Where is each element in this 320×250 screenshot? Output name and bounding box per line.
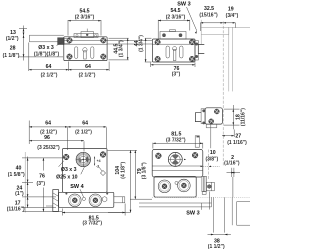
view C lower bracket [206, 124, 217, 128]
svg-text:(2 1/2"): (2 1/2") [79, 73, 96, 79]
view A corner screws [66, 37, 73, 44]
view E bolt and hex [202, 176, 214, 194]
svg-text:(1 3/4"): (1 3/4") [138, 35, 144, 52]
svg-text:(1 5/8"): (1 5/8") [8, 172, 25, 178]
wall section vertical lines right [229, 27, 233, 91]
view D rollers [69, 194, 82, 207]
svg-text:Ø3 x 3: Ø3 x 3 [38, 45, 54, 51]
view E adjust wheel [168, 152, 186, 166]
svg-text:64: 64 [82, 120, 88, 126]
tolerance +4 / -2 [94, 157, 102, 172]
label SW 3 top with leader [177, 2, 197, 34]
svg-text:+4: +4 [97, 159, 101, 163]
dim 76 vertical [22, 158, 62, 212]
svg-text:(2 3/16"): (2 3/16") [166, 15, 186, 21]
svg-text:(3"): (3") [172, 71, 181, 77]
svg-text:Ø3 x 3: Ø3 x 3 [61, 167, 77, 173]
dim 13 / 28 far left [3, 26, 63, 61]
dim 81.5 above view E [153, 132, 203, 149]
svg-text:(1/2"): (1/2") [6, 36, 19, 42]
view B slots [166, 46, 183, 61]
dim 10 right of view E [201, 150, 220, 167]
dim 54.5 top-left [68, 9, 101, 36]
view D top screws [62, 153, 70, 161]
svg-text:(1/8")(1/8"): (1/8")(1/8") [34, 52, 60, 58]
view D hex nut and axle [102, 197, 125, 203]
svg-text:76: 76 [39, 173, 45, 179]
wire top rail right segment to view B [107, 40, 152, 44]
view E screws [155, 152, 163, 160]
svg-text:(2 1/2"): (2 1/2") [75, 129, 92, 135]
svg-text:(3"): (3") [37, 181, 46, 187]
dim 44.5 right of view A [109, 38, 129, 60]
view B top clamp [160, 30, 186, 39]
svg-text:(3 7/32"): (3 7/32") [82, 221, 102, 227]
svg-text:Ø25 x 10: Ø25 x 10 [56, 174, 77, 180]
svg-text:64: 64 [85, 64, 91, 70]
svg-text:(1 1/2"): (1 1/2") [208, 244, 225, 250]
svg-text:(3 1/8"): (3 1/8") [142, 162, 148, 179]
labels Ø3 x 3 / Ø25 x 10 / SW 4 [56, 161, 85, 198]
svg-text:(1"): (1") [15, 191, 24, 197]
svg-text:40: 40 [16, 165, 22, 171]
svg-text:(1 1/16"): (1 1/16") [227, 140, 247, 146]
dim 27 below view C [222, 130, 247, 146]
dim 38 below door [208, 234, 231, 250]
dim 64 + 64 below view A [29, 43, 109, 79]
door panel section [214, 197, 225, 232]
wall line left [24, 152, 26, 213]
svg-text:(3/8"): (3/8") [205, 156, 218, 162]
view A plate [64, 37, 107, 61]
svg-text:10: 10 [210, 150, 216, 156]
wire top rail left segment [29, 35, 63, 42]
view E rollers [158, 180, 171, 193]
dashed bolt centerline [195, 124, 211, 180]
svg-text:SW 3: SW 3 [177, 2, 190, 8]
view A slots [75, 47, 94, 59]
wall block bottom right [232, 197, 250, 225]
view B corner screws [154, 39, 161, 46]
dim 76 below view B [151, 63, 195, 78]
svg-text:(15/16"): (15/16") [199, 13, 218, 19]
view E plate [152, 150, 203, 178]
svg-text:(1 1/8"): (1 1/8") [3, 53, 20, 59]
svg-text:19: 19 [228, 7, 234, 13]
svg-text:(2 1/2"): (2 1/2") [41, 73, 58, 79]
view C body [205, 108, 222, 125]
dim 32.5 / 19 top-right [199, 6, 238, 31]
dim 2 gap [224, 155, 240, 197]
dim 81.5 below view D [62, 204, 125, 227]
view D height adjust wheel [76, 152, 90, 166]
view B right flange + hook [195, 41, 204, 61]
view D plate [63, 149, 108, 193]
dim 64 + 64 above view D [29, 120, 106, 150]
view D pivot [82, 197, 85, 200]
centerline dashed vertical [222, 22, 224, 167]
view E carriage [154, 177, 196, 198]
svg-text:64: 64 [46, 64, 52, 70]
view D left hook bar [46, 190, 59, 212]
svg-text:54.5: 54.5 [170, 8, 180, 14]
view A top clamp mechanism [74, 29, 98, 38]
svg-text:(1 3/4"): (1 3/4") [118, 40, 124, 57]
view C hook [195, 113, 201, 122]
svg-text:(4 1/8"): (4 1/8") [120, 162, 126, 179]
dim 104 vertical [108, 150, 138, 212]
svg-text:32.5: 32.5 [204, 6, 214, 12]
dim 44 left of view B [134, 35, 152, 62]
dim 96 [29, 135, 84, 151]
label SW 3 bottom with leader [186, 192, 209, 217]
svg-text:(3 7/32"): (3 7/32") [166, 137, 186, 143]
view D carriage [59, 192, 114, 207]
svg-text:(1/16"): (1/16") [224, 161, 240, 167]
svg-text:(2 3/16"): (2 3/16") [75, 15, 95, 21]
view C flange [201, 109, 205, 125]
svg-text:28: 28 [10, 46, 16, 52]
dims 40 / 24 / 17 left column [7, 157, 65, 213]
view B plate [152, 39, 195, 62]
dim 79 vertical [130, 150, 152, 199]
center mark diamond [100, 170, 105, 175]
view E pivot [175, 181, 178, 184]
svg-text:(3 25/32"): (3 25/32") [37, 145, 60, 151]
svg-text:96: 96 [44, 135, 50, 141]
svg-text:(11/16"): (11/16") [241, 108, 247, 126]
floor track [139, 197, 250, 210]
view A left hook block [58, 38, 70, 45]
dim 18 right of view C [224, 105, 247, 129]
svg-text:SW 4: SW 4 [70, 184, 84, 190]
label Ø3 x 3 (1/8")(1/8") [34, 43, 62, 58]
svg-text:13: 13 [10, 30, 16, 36]
dim 54.5 above view B [158, 8, 190, 38]
svg-text:SW 3: SW 3 [186, 210, 199, 216]
ceiling profile lines right of view B [201, 20, 250, 44]
svg-text:(3/4"): (3/4") [226, 13, 239, 19]
svg-text:64: 64 [45, 120, 51, 126]
svg-text:27: 27 [235, 133, 241, 139]
